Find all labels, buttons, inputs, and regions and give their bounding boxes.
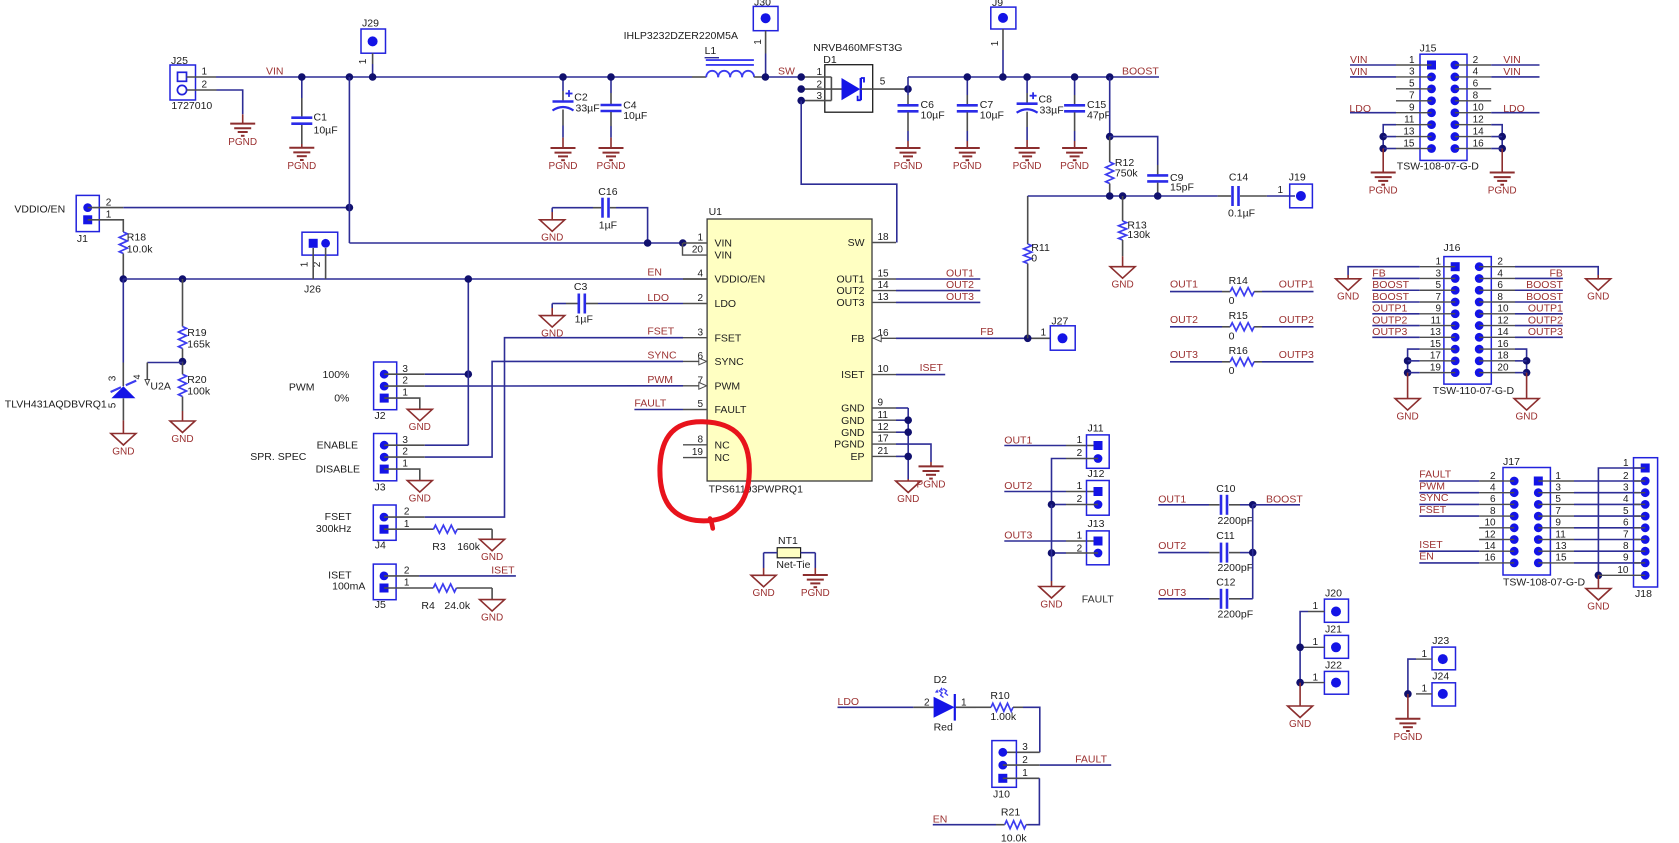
wire J17 pin11 to J18 — [1550, 539, 1574, 541]
svg-text:NRVB460MFST3G: NRVB460MFST3G — [813, 42, 902, 54]
svg-text:10.0k: 10.0k — [127, 243, 153, 255]
J18 pin 1 — [1641, 464, 1650, 473]
junction dot J18 GND — [1595, 572, 1603, 580]
svg-text:FAULT: FAULT — [634, 397, 666, 409]
svg-text:GND: GND — [1040, 599, 1062, 610]
svg-text:GND: GND — [409, 422, 431, 433]
connector J16 TSW-110-07-G-D — [1444, 257, 1491, 385]
J17 row pin 12/11 — [1510, 535, 1519, 544]
wire R11 top corner — [1027, 195, 1029, 197]
LED D2 arrows — [939, 688, 948, 697]
J15 row pin 3/4 — [1427, 73, 1436, 82]
svg-text:12: 12 — [1497, 315, 1509, 326]
resistor R20 100k — [179, 374, 187, 396]
svg-text:130k: 130k — [1127, 229, 1151, 241]
junction dots FB line — [1106, 192, 1114, 200]
svg-text:5: 5 — [1555, 494, 1561, 505]
svg-text:PGND: PGND — [597, 161, 626, 172]
J17 row pin 16/15 — [1510, 559, 1519, 568]
power PGND (J25 pin2) — [230, 123, 255, 125]
svg-text:1: 1 — [1022, 768, 1028, 779]
J16 row pin 15/16 — [1451, 345, 1460, 354]
svg-text:TSW-108-07-G-D: TSW-108-07-G-D — [1397, 161, 1479, 173]
svg-text:9: 9 — [1555, 518, 1561, 529]
svg-text:OUTP1: OUTP1 — [1372, 303, 1407, 315]
power PGND (C15) — [1062, 147, 1087, 149]
svg-text:1: 1 — [1277, 185, 1283, 196]
svg-text:J3: J3 — [375, 481, 386, 493]
svg-text:ISET: ISET — [491, 565, 515, 577]
svg-text:10: 10 — [1484, 518, 1496, 529]
wire J16 right GND bus — [1515, 349, 1527, 373]
svg-text:LDO: LDO — [838, 696, 860, 708]
svg-text:15: 15 — [878, 269, 890, 280]
svg-text:20: 20 — [1497, 362, 1509, 373]
ground GND (NT1) — [751, 575, 776, 587]
svg-text:5: 5 — [108, 402, 119, 408]
svg-text:1: 1 — [358, 58, 369, 64]
junction dot C15 — [1071, 73, 1079, 81]
svg-text:9: 9 — [1623, 553, 1629, 564]
svg-text:13: 13 — [1403, 126, 1415, 137]
svg-text:24.0k: 24.0k — [444, 600, 470, 612]
svg-text:13: 13 — [1430, 327, 1442, 338]
svg-text:8: 8 — [697, 434, 703, 445]
svg-text:BOOST: BOOST — [1266, 493, 1303, 505]
svg-text:19: 19 — [692, 447, 704, 458]
svg-text:17: 17 — [878, 434, 890, 445]
svg-text:SYNC: SYNC — [647, 349, 677, 361]
svg-text:0: 0 — [1229, 365, 1235, 377]
power PGND (C6) — [896, 147, 921, 149]
junction dots SW pins — [797, 73, 805, 81]
svg-text:OUT1: OUT1 — [836, 274, 864, 286]
svg-text:J9: J9 — [992, 0, 1003, 9]
resistor R12 750k — [1109, 137, 1111, 162]
svg-text:1: 1 — [1623, 458, 1629, 469]
svg-text:1: 1 — [1409, 55, 1415, 66]
svg-text:10: 10 — [1497, 304, 1509, 315]
capacitor C8 33uF polarized — [1026, 77, 1028, 93]
svg-text:7: 7 — [1435, 292, 1441, 303]
svg-text:6: 6 — [1623, 518, 1629, 529]
wire J11 pin2 to GND bus — [1066, 458, 1098, 460]
U1 pin6 SYNC input arrow — [699, 358, 707, 365]
resistor R19 165k — [182, 279, 184, 327]
svg-text:FB: FB — [851, 333, 864, 345]
svg-text:R14: R14 — [1229, 275, 1248, 287]
J18 pin 5 — [1641, 512, 1650, 521]
svg-text:OUT3: OUT3 — [836, 297, 864, 309]
svg-text:GND: GND — [541, 233, 563, 244]
svg-text:3: 3 — [697, 327, 703, 338]
J17 row pin 14/13 — [1510, 547, 1519, 556]
hand-drawn red circle around NC pins — [660, 422, 749, 521]
svg-text:J26: J26 — [304, 284, 321, 296]
junction dot EN rail vertical — [465, 275, 473, 283]
wire FB line — [1028, 195, 1218, 197]
resistor R4 24.0k — [433, 584, 456, 592]
svg-text:2: 2 — [1022, 755, 1028, 766]
svg-text:PGND: PGND — [287, 161, 316, 172]
op-amp U1 TPS61193PWPRQ1 body — [707, 219, 872, 481]
svg-text:BOOST: BOOST — [1372, 291, 1409, 303]
svg-text:IHLP3232DZER220M5A: IHLP3232DZER220M5A — [624, 30, 738, 42]
svg-text:J19: J19 — [1289, 172, 1306, 184]
svg-text:PGND: PGND — [801, 588, 830, 599]
J18 pin 10 — [1641, 571, 1650, 580]
svg-text:1: 1 — [1077, 481, 1083, 492]
wire J17 pin7 to J18 — [1550, 515, 1574, 517]
wire J5 pin1 via R4 to GND — [384, 587, 433, 589]
svg-text:16: 16 — [1484, 553, 1496, 564]
svg-text:OUT1: OUT1 — [1004, 434, 1032, 446]
wire J30 to SW — [765, 31, 767, 54]
svg-text:OUTP3: OUTP3 — [1528, 326, 1563, 338]
svg-text:BOOST: BOOST — [1122, 65, 1159, 77]
svg-text:FAULT: FAULT — [1082, 594, 1114, 606]
connector J17 TSW-108-07-G-D — [1503, 468, 1550, 576]
svg-text:J23: J23 — [1432, 635, 1449, 647]
svg-text:GND: GND — [1396, 411, 1418, 422]
wire to C9 branch — [1110, 137, 1158, 165]
svg-text:1µF: 1µF — [575, 314, 593, 326]
svg-text:U1: U1 — [709, 206, 723, 218]
J18 pin 3 — [1641, 488, 1650, 497]
svg-text:1: 1 — [1077, 435, 1083, 446]
svg-text:OUT3: OUT3 — [1004, 530, 1032, 542]
J17 row pin 6/5 — [1510, 500, 1519, 509]
svg-text:GND: GND — [841, 415, 865, 427]
svg-text:1: 1 — [1435, 257, 1441, 268]
svg-text:16: 16 — [1497, 339, 1509, 350]
svg-text:4: 4 — [1623, 494, 1629, 505]
capacitor C9 15pF — [1147, 174, 1168, 177]
svg-text:14: 14 — [1484, 541, 1496, 552]
svg-text:4: 4 — [132, 374, 142, 379]
wire GND bus down — [1051, 505, 1053, 582]
diode D1 symbol — [842, 78, 861, 100]
svg-text:6: 6 — [1490, 494, 1496, 505]
svg-text:3: 3 — [1409, 67, 1415, 78]
svg-text:1: 1 — [106, 210, 112, 221]
svg-text:PGND: PGND — [1060, 161, 1089, 172]
svg-text:33µF: 33µF — [576, 102, 600, 114]
svg-text:PWM: PWM — [715, 380, 741, 392]
svg-text:EN: EN — [1419, 551, 1434, 563]
svg-text:VIN: VIN — [1503, 54, 1521, 66]
svg-text:1: 1 — [402, 388, 408, 399]
svg-text:C16: C16 — [598, 186, 617, 198]
svg-text:1: 1 — [1555, 471, 1561, 482]
svg-text:0.1µF: 0.1µF — [1228, 207, 1255, 219]
wire J17 pin9 to J18 — [1550, 527, 1574, 529]
svg-text:4: 4 — [1490, 483, 1496, 494]
svg-text:J27: J27 — [1051, 315, 1068, 327]
svg-text:EP: EP — [850, 451, 864, 463]
ground GND (J16 left) — [1395, 399, 1420, 411]
svg-text:ISET: ISET — [920, 362, 944, 374]
svg-text:5: 5 — [880, 76, 886, 87]
connector J23 — [1432, 647, 1456, 670]
svg-text:FAULT: FAULT — [1075, 754, 1107, 766]
svg-text:9: 9 — [878, 398, 884, 409]
svg-text:FAULT: FAULT — [715, 404, 747, 416]
svg-text:OUT3: OUT3 — [946, 291, 974, 303]
svg-text:R16: R16 — [1229, 345, 1248, 357]
svg-text:13: 13 — [878, 292, 890, 303]
J18 pin 2 — [1641, 477, 1650, 486]
svg-text:1: 1 — [402, 459, 408, 470]
svg-text:12: 12 — [1484, 529, 1496, 540]
svg-text:OUTP1: OUTP1 — [1528, 303, 1563, 315]
svg-text:1: 1 — [1421, 649, 1427, 660]
wire J17 pin3 to J18 — [1550, 492, 1574, 494]
svg-text:R4: R4 — [421, 600, 435, 612]
junction dot C8 — [1023, 73, 1031, 81]
power PGND (C1) — [289, 147, 314, 149]
svg-text:11: 11 — [1431, 315, 1442, 326]
svg-text:3: 3 — [1022, 742, 1028, 753]
junction dot J21 — [1296, 644, 1304, 652]
svg-text:J17: J17 — [1503, 456, 1520, 468]
svg-text:1µF: 1µF — [599, 220, 617, 232]
svg-text:100%: 100% — [323, 369, 350, 381]
junction dot EN rail / R18 — [120, 275, 128, 283]
svg-text:7: 7 — [1409, 91, 1415, 102]
svg-text:14: 14 — [1473, 126, 1485, 137]
svg-text:10.0k: 10.0k — [1001, 833, 1027, 843]
wire J17 pin5 to J18 — [1550, 503, 1574, 505]
svg-text:2: 2 — [924, 697, 930, 708]
J16 row pin 11/12 — [1451, 321, 1460, 330]
svg-text:1: 1 — [753, 39, 764, 45]
junction dot C4 — [607, 73, 615, 81]
svg-text:FSET: FSET — [1419, 504, 1446, 516]
resistor R3 160k — [434, 525, 458, 533]
svg-text:OUTP2: OUTP2 — [1528, 314, 1563, 326]
wire VIN rail — [216, 76, 692, 78]
svg-text:OUT3: OUT3 — [1158, 587, 1186, 599]
wire J16 left GND bus — [1408, 349, 1420, 373]
wire U2A ref to R19/R20 junction — [147, 362, 182, 364]
svg-text:10µF: 10µF — [980, 110, 1004, 122]
svg-text:GND: GND — [1587, 292, 1609, 303]
svg-text:10: 10 — [878, 364, 890, 375]
svg-text:BOOST: BOOST — [1372, 279, 1409, 291]
wire VIN to U1 pins — [349, 242, 683, 244]
svg-text:GND: GND — [1337, 292, 1359, 303]
wire BOOST bus vertical — [1252, 505, 1254, 599]
connector J5 ISET — [373, 564, 396, 600]
svg-text:PGND: PGND — [1013, 161, 1042, 172]
svg-text:OUT1: OUT1 — [946, 267, 974, 279]
connector J30 — [753, 6, 778, 30]
junction dot C7 — [964, 73, 972, 81]
connector J19 — [1290, 184, 1313, 208]
connector J4 FSET — [373, 505, 396, 540]
svg-text:8: 8 — [1497, 292, 1503, 303]
svg-text:D2: D2 — [934, 674, 948, 686]
svg-text:2: 2 — [402, 447, 408, 458]
wire J1 pin1 to R18 — [88, 220, 124, 232]
svg-text:6: 6 — [1473, 79, 1479, 90]
svg-text:14: 14 — [878, 280, 890, 291]
power PGND (C8) — [1015, 147, 1040, 149]
svg-text:BOOST: BOOST — [1526, 291, 1563, 303]
svg-text:NT1: NT1 — [778, 535, 798, 547]
svg-text:LDO: LDO — [647, 292, 669, 304]
svg-text:J16: J16 — [1444, 242, 1461, 254]
svg-text:J25: J25 — [171, 55, 188, 67]
wire FB net U1 to J27 — [896, 337, 1028, 339]
capacitor C6 10uF — [907, 89, 909, 95]
svg-text:PWM: PWM — [1419, 480, 1445, 492]
wire EN rail — [123, 278, 683, 280]
svg-text:PGND: PGND — [228, 137, 257, 148]
svg-text:L1: L1 — [705, 45, 717, 57]
svg-text:GND: GND — [171, 434, 193, 445]
J17 row pin 2/1 — [1510, 477, 1519, 486]
svg-text:3: 3 — [1555, 483, 1561, 494]
svg-text:3: 3 — [108, 375, 119, 381]
svg-text:100mA: 100mA — [332, 581, 365, 593]
connector J2 PWM select — [374, 362, 397, 410]
svg-text:4: 4 — [697, 269, 703, 280]
svg-text:7: 7 — [1555, 506, 1561, 517]
J16 row pin 13/14 — [1451, 333, 1460, 342]
svg-text:47pF: 47pF — [1087, 110, 1111, 122]
wire J2 pin2 PWM to U1 — [384, 385, 425, 387]
svg-text:GND: GND — [1587, 601, 1609, 612]
svg-text:7: 7 — [1623, 529, 1629, 540]
wire J16 pin1 to GND left — [1348, 267, 1420, 275]
svg-text:2: 2 — [1473, 55, 1479, 66]
capacitor C14 0.1uF — [1218, 195, 1231, 197]
svg-text:J24: J24 — [1432, 671, 1449, 683]
junction dot J30/SW — [762, 73, 770, 81]
svg-text:VDDIO/EN: VDDIO/EN — [14, 204, 65, 216]
svg-text:PGND: PGND — [1369, 186, 1398, 197]
svg-text:11: 11 — [1555, 529, 1566, 540]
wire U2A anode to GND — [122, 398, 124, 420]
U1 left pin stubs and numbers — [683, 242, 707, 244]
svg-text:2: 2 — [1623, 471, 1629, 482]
svg-text:GND: GND — [841, 403, 865, 415]
svg-text:SW: SW — [848, 237, 865, 249]
svg-text:1: 1 — [697, 233, 703, 244]
svg-text:TSW-110-07-G-D: TSW-110-07-G-D — [1433, 385, 1515, 397]
ground GND (R20) — [170, 421, 195, 433]
wire BOOST rail — [907, 77, 909, 89]
wire OUT1 stub — [896, 278, 980, 280]
junction dot J22 — [1296, 679, 1304, 687]
svg-text:OUT1: OUT1 — [1158, 493, 1186, 505]
wire J3 pin1 to GND — [384, 469, 420, 481]
svg-text:J1: J1 — [77, 233, 88, 245]
junction dot GND bus J12 — [1048, 501, 1056, 509]
svg-text:3: 3 — [1623, 483, 1629, 494]
power PGND (J23-J24) — [1395, 718, 1420, 720]
junction dot FB/R11 — [1024, 335, 1032, 343]
wire J26 pins to EN rail — [312, 248, 314, 279]
J16 row pin 9/10 — [1451, 309, 1460, 318]
power PGND (C2) — [551, 147, 576, 149]
svg-text:VIN: VIN — [715, 238, 733, 250]
wire J9 to BOOST — [1002, 29, 1004, 50]
wire VIN J15-4 — [1491, 76, 1539, 78]
J18 pin 6 — [1641, 523, 1650, 532]
connector J27 — [1050, 326, 1075, 350]
J17 row pin 4/3 — [1510, 488, 1519, 497]
svg-text:2: 2 — [404, 566, 410, 577]
J16 row pin 5/6 — [1451, 286, 1460, 295]
resistor R10 1.00k — [976, 706, 991, 708]
ground GND (J20-J22) — [1288, 706, 1313, 718]
wire J3 pin3 to EN vertical — [384, 444, 425, 446]
wire SW vertical to U1 pin18 — [801, 101, 897, 243]
svg-text:TLVH431AQDBVRQ1: TLVH431AQDBVRQ1 — [5, 399, 107, 411]
ground GND (U2A) — [111, 434, 136, 446]
svg-text:1: 1 — [202, 67, 208, 78]
connector J10 FAULT — [992, 741, 1017, 788]
svg-text:2: 2 — [1077, 448, 1083, 459]
svg-text:SYNC: SYNC — [715, 356, 745, 368]
capacitor C15 47pF — [1074, 77, 1076, 95]
svg-text:10: 10 — [1617, 565, 1629, 576]
svg-text:FSET: FSET — [647, 326, 674, 338]
svg-text:PGND: PGND — [953, 161, 982, 172]
wire J4 pin2 FSET net — [384, 516, 425, 518]
ground GND (J3) — [407, 481, 432, 493]
svg-text:J21: J21 — [1325, 624, 1342, 636]
connector J9 — [991, 7, 1016, 29]
svg-text:NC: NC — [715, 439, 731, 451]
wire J18 pin1 to GND bus — [1598, 468, 1640, 575]
wire LDO J15-9 — [1350, 112, 1396, 114]
power PGND (J15 left) — [1371, 172, 1396, 174]
svg-text:ENABLE: ENABLE — [317, 439, 358, 451]
svg-text:2: 2 — [404, 507, 410, 518]
svg-text:1727010: 1727010 — [171, 100, 212, 112]
svg-text:10µF: 10µF — [314, 125, 338, 137]
svg-text:11: 11 — [1404, 114, 1415, 125]
svg-text:J4: J4 — [375, 540, 386, 552]
resistor R13 130k — [1122, 196, 1124, 221]
ground GND (J11-J13) — [1039, 587, 1064, 599]
power PGND (C4) — [599, 147, 624, 149]
svg-text:J18: J18 — [1635, 588, 1652, 600]
svg-text:LDO: LDO — [715, 298, 737, 310]
svg-text:1: 1 — [1312, 637, 1318, 648]
resistor R11 0 — [1027, 196, 1029, 244]
power PGND (NT1) — [803, 574, 828, 576]
svg-text:1.00k: 1.00k — [990, 711, 1016, 723]
wire J29 to VIN rail — [372, 53, 374, 64]
svg-text:C3: C3 — [574, 281, 588, 293]
svg-text:FB: FB — [980, 326, 993, 338]
capacitor C4 10uF — [610, 77, 612, 93]
wire J15 right PGND bus — [1491, 125, 1502, 149]
wire LDO J15-10 — [1491, 112, 1539, 114]
svg-text:EN: EN — [647, 267, 662, 279]
svg-text:1: 1 — [1421, 684, 1427, 695]
svg-text:100k: 100k — [187, 386, 211, 398]
J15 row pin 13/14 — [1427, 132, 1436, 141]
wire J17 pin15 to J18 — [1550, 562, 1574, 564]
svg-text:2: 2 — [816, 79, 822, 90]
svg-text:OUTP3: OUTP3 — [1279, 349, 1314, 361]
